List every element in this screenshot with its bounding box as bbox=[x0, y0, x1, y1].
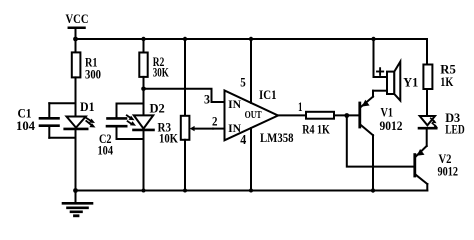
transistor V1 9012 bbox=[360, 91, 403, 136]
node Y1 top bbox=[371, 37, 375, 41]
wire junction to pin 3 bbox=[144, 89, 225, 102]
svg-text:LM358: LM358 bbox=[260, 130, 294, 145]
wire bottom rail bbox=[76, 190, 428, 192]
node ground junction bbox=[73, 188, 78, 193]
svg-text:OUT: OUT bbox=[245, 110, 262, 121]
node R4/V1 base junction bbox=[344, 113, 349, 118]
svg-text:VCC: VCC bbox=[66, 11, 89, 26]
diode D3 LED bbox=[419, 110, 465, 146]
diode D2 (photodiode) bbox=[127, 101, 165, 191]
wire pin 4 bbox=[250, 128, 252, 190]
capacitor C2 bbox=[98, 104, 144, 158]
svg-text:1: 1 bbox=[298, 99, 303, 114]
node pin5 top bbox=[249, 37, 253, 41]
svg-text:D2: D2 bbox=[150, 101, 165, 116]
node R3 bottom bbox=[183, 189, 187, 193]
wire base junction to V2 bbox=[347, 116, 414, 167]
svg-text:4: 4 bbox=[240, 132, 246, 147]
svg-text:D1: D1 bbox=[80, 99, 95, 114]
wire top rail bbox=[76, 39, 428, 65]
op-amp U1 LM358 bbox=[204, 74, 294, 146]
node VCC junction bbox=[73, 37, 78, 42]
svg-text:3: 3 bbox=[204, 91, 210, 106]
wire pin 5 bbox=[250, 39, 252, 103]
wire V1 collector to bottom rail bbox=[372, 135, 374, 190]
resistor R5 bbox=[423, 62, 456, 116]
svg-text:1K: 1K bbox=[440, 74, 454, 89]
resistor R2 bbox=[139, 39, 169, 104]
capacitor C1 bbox=[16, 103, 76, 138]
wire pin 2 bbox=[213, 128, 225, 130]
ground bbox=[63, 191, 92, 216]
svg-text:5: 5 bbox=[240, 74, 246, 89]
diode D1 (emitter LED) bbox=[65, 99, 96, 191]
svg-text:30K: 30K bbox=[153, 65, 170, 80]
node R2 top bbox=[141, 37, 145, 41]
transistor V2 9012 bbox=[415, 146, 458, 191]
resistor R1 bbox=[72, 39, 101, 103]
potentiometer R3 bbox=[158, 39, 214, 191]
node V1 collector bottom bbox=[371, 188, 375, 192]
VCC bbox=[66, 11, 89, 39]
resistor R4 bbox=[302, 112, 359, 137]
svg-text:2: 2 bbox=[212, 113, 218, 128]
node R3 top bbox=[183, 37, 187, 41]
speaker Y1 bbox=[373, 39, 418, 101]
svg-text:104: 104 bbox=[16, 118, 35, 133]
svg-text:R4 1K: R4 1K bbox=[302, 122, 330, 137]
svg-text:104: 104 bbox=[98, 143, 114, 158]
svg-text:IN: IN bbox=[228, 99, 242, 111]
svg-text:IC1: IC1 bbox=[259, 87, 277, 102]
node D2 bottom bbox=[142, 189, 146, 193]
svg-text:LED: LED bbox=[445, 121, 465, 136]
svg-text:9012: 9012 bbox=[380, 118, 403, 133]
svg-text:Y1: Y1 bbox=[403, 75, 418, 90]
wire output pin 1 bbox=[278, 114, 306, 116]
node pin4 bottom bbox=[249, 189, 253, 193]
node R2/D2 junction bbox=[141, 87, 146, 92]
svg-text:300: 300 bbox=[85, 66, 101, 81]
svg-text:9012: 9012 bbox=[438, 164, 459, 179]
svg-text:10K: 10K bbox=[159, 130, 179, 145]
